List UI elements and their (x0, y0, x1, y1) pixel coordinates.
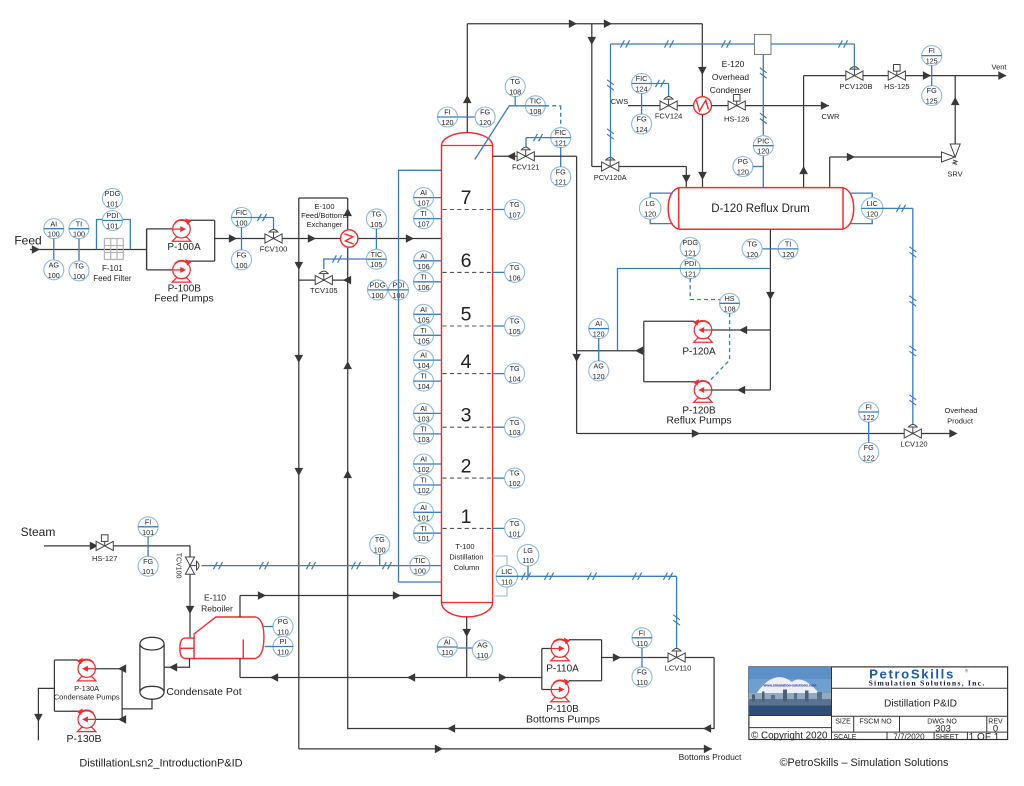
wire TG-100 stub (379, 554, 381, 565)
svg-text:F-101: F-101 (102, 264, 123, 273)
drum vapor riser (803, 76, 805, 188)
svg-text:E-110: E-110 (204, 593, 226, 603)
svg-text:FG: FG (637, 115, 647, 124)
instrument LIC-110 (496, 566, 518, 588)
svg-text:AI: AI (420, 188, 427, 197)
svg-text:SIZE: SIZE (835, 719, 851, 726)
svg-text:TIC: TIC (371, 250, 383, 259)
wire TIC-105 to TCV105 (324, 259, 367, 269)
signal LIC-120 to LCV120 (883, 207, 913, 209)
svg-text:AG: AG (49, 260, 60, 269)
instrument PDI-101 (102, 211, 122, 231)
svg-text:110: 110 (477, 651, 488, 660)
instrument FG-101 (138, 556, 158, 576)
svg-text:PDG: PDG (370, 281, 386, 290)
pump P-100A (172, 218, 191, 241)
P-130 suction manifold (121, 669, 123, 720)
svg-text:CWR: CWR (822, 112, 840, 121)
wire FIC-100 tap (241, 227, 243, 250)
svg-text:Bottoms Pumps: Bottoms Pumps (526, 714, 600, 726)
svg-text:110: 110 (501, 577, 512, 586)
signal PIC-120 drop (762, 55, 764, 188)
instrument FI-101 (138, 517, 158, 537)
vapor line column top (466, 24, 468, 133)
svg-text:DistillationLsn2_IntroductionP: DistillationLsn2_IntroductionP&ID (79, 758, 242, 770)
valve LCV120 (904, 425, 921, 439)
svg-text:TIC: TIC (530, 96, 542, 105)
svg-text:120: 120 (593, 330, 605, 339)
instrument PG-110 (273, 617, 293, 637)
svg-text:124: 124 (636, 125, 648, 134)
svg-text:TCV105: TCV105 (310, 286, 338, 295)
wire to PCV120A (591, 24, 593, 167)
valve FCV124 (660, 97, 677, 111)
svg-text:106: 106 (509, 273, 521, 282)
svg-text:PCV120B: PCV120B (840, 82, 873, 91)
instrument HS-108 (720, 293, 740, 313)
svg-text:120: 120 (593, 372, 605, 381)
steam line (44, 545, 190, 547)
svg-text:TI: TI (420, 209, 426, 218)
svg-text:Column: Column (454, 563, 480, 572)
instruments AI/TI 101-107 (414, 197, 442, 199)
svg-text:Feed/Bottoms: Feed/Bottoms (301, 211, 348, 220)
svg-text:100: 100 (48, 230, 60, 239)
svg-text:120: 120 (442, 118, 454, 127)
instrument LIC-120 (861, 198, 883, 220)
svg-text:TI: TI (76, 219, 82, 228)
svg-text:TG: TG (510, 364, 520, 373)
svg-text:105: 105 (370, 220, 382, 229)
valve TCV100 (185, 557, 199, 574)
svg-text:LCV110: LCV110 (665, 664, 692, 673)
reflux pump discharge (577, 350, 644, 352)
instrument FI-122 (859, 402, 879, 422)
svg-text:105: 105 (509, 327, 521, 336)
svg-text:FI: FI (145, 517, 151, 526)
instrument FI-125 (922, 46, 942, 66)
svg-text:TG: TG (510, 469, 520, 478)
signal top blue (611, 43, 855, 45)
svg-text:101: 101 (509, 529, 521, 538)
reboiler E-110 (180, 617, 264, 659)
wire FI-125 tap (931, 65, 933, 85)
svg-text:100: 100 (374, 546, 386, 555)
controller box (755, 35, 772, 55)
valve PCV120A (602, 158, 619, 172)
svg-text:110: 110 (442, 648, 453, 657)
condensate pot (140, 637, 164, 699)
pump discharge manifold P-120 (644, 320, 695, 322)
svg-text:AI: AI (420, 305, 427, 314)
svg-text:FSCM NO: FSCM NO (859, 719, 892, 726)
instrument PDG-100 (368, 280, 388, 300)
svg-text:100: 100 (48, 271, 60, 280)
svg-text:TG: TG (510, 418, 520, 427)
instrument TIC-100 (410, 556, 430, 576)
instrument AG-100 (44, 260, 64, 280)
svg-text:SRV: SRV (947, 170, 962, 179)
wire FIC-121 tap (560, 147, 562, 167)
vent line (863, 75, 1006, 77)
svg-text:101: 101 (142, 528, 154, 537)
svg-text:Bottoms Product: Bottoms Product (679, 752, 742, 762)
wire TIC-108 to FIC-121 dashed (545, 105, 561, 107)
wire AI/AG-110 (438, 647, 493, 649)
svg-text:102: 102 (418, 486, 430, 495)
instrument AG-110 (473, 640, 493, 660)
instrument AI-100 (44, 219, 64, 239)
reboiler vapor line (239, 596, 241, 618)
svg-text:104: 104 (509, 375, 521, 384)
instrument LG-110 (517, 544, 539, 566)
svg-text:FCV100: FCV100 (260, 245, 288, 254)
svg-text:100: 100 (372, 291, 384, 300)
svg-text:TI: TI (785, 240, 791, 249)
svg-text:102: 102 (509, 479, 521, 488)
relief valve SRV (942, 144, 961, 165)
drum outlet (769, 229, 771, 390)
svg-text:www.simulation-solutions.com: www.simulation-solutions.com (763, 684, 817, 688)
svg-text:LG: LG (523, 546, 533, 555)
svg-text:120: 120 (782, 250, 794, 259)
svg-text:120: 120 (746, 250, 758, 259)
svg-text:103: 103 (418, 435, 430, 444)
svg-text:2: 2 (461, 456, 472, 478)
svg-text:303: 303 (935, 724, 951, 735)
wire pump discharge manifold (187, 219, 214, 221)
instrument TG-108 (505, 77, 525, 97)
instrument TI-100 (69, 219, 89, 239)
svg-text:TG: TG (510, 200, 520, 209)
svg-text:CWS: CWS (611, 97, 629, 106)
svg-text:FI: FI (444, 108, 450, 117)
valve HS-125 (888, 65, 905, 81)
pump P-110B (551, 679, 570, 702)
svg-text:120: 120 (737, 168, 749, 177)
instrument FG-124 (632, 114, 652, 134)
P-110 suction manifold (541, 649, 543, 690)
svg-text:Feed Pumps: Feed Pumps (154, 293, 214, 305)
wire AI-120 tap (598, 338, 600, 361)
svg-text:TG: TG (510, 263, 520, 272)
instrument TG-100 feed (69, 261, 89, 281)
svg-text:HS-126: HS-126 (724, 115, 749, 124)
svg-text:FIC: FIC (236, 208, 248, 217)
instrument TI-120 (778, 239, 798, 259)
svg-text:4: 4 (461, 351, 472, 373)
svg-text:AG: AG (477, 641, 488, 650)
wire FIC-124 to FCV124 (651, 83, 668, 85)
instrument TG-120 (742, 239, 762, 259)
svg-text:TG: TG (510, 317, 520, 326)
svg-text:HS-125: HS-125 (884, 82, 909, 91)
svg-text:Simulation Solutions, Inc.: Simulation Solutions, Inc. (869, 679, 986, 688)
wire LG-110 stub (527, 566, 529, 577)
instrument FIC-121 (551, 128, 571, 148)
svg-text:5: 5 (461, 304, 472, 326)
svg-text:PCV120A: PCV120A (594, 173, 627, 182)
svg-text:©PetroSkills – Simulation Solu: ©PetroSkills – Simulation Solutions (780, 757, 949, 769)
svg-text:FCV124: FCV124 (655, 112, 683, 121)
steam drop (189, 546, 191, 638)
heat-exchanger E-120 (694, 97, 712, 115)
wire PG-110 stub (264, 626, 274, 628)
wire TG-105 tap (375, 229, 377, 250)
instrument PDI-121 (680, 259, 700, 279)
svg-text:101: 101 (418, 513, 430, 522)
instrument FG-121 (551, 167, 571, 187)
svg-text:3: 3 (461, 405, 472, 427)
valve LCV110 (668, 649, 685, 663)
svg-text:1: 1 (461, 506, 472, 528)
svg-text:PG: PG (278, 617, 289, 626)
signal HS-108 to P-120B dashed (709, 313, 730, 382)
condensate discharge (38, 688, 54, 740)
pump P-100B (172, 259, 191, 282)
svg-text:FI: FI (929, 46, 935, 55)
svg-text:100: 100 (236, 219, 248, 228)
svg-text:FG: FG (556, 167, 566, 176)
svg-text:110: 110 (277, 648, 288, 657)
svg-text:TG: TG (371, 210, 381, 219)
svg-text:PIC: PIC (757, 136, 769, 145)
svg-text:FIC: FIC (555, 128, 567, 137)
pump P-130A (77, 658, 96, 681)
svg-text:Reboiler: Reboiler (201, 604, 233, 614)
svg-text:121: 121 (684, 270, 696, 279)
valve PCV120B (846, 67, 863, 81)
svg-text:122: 122 (863, 454, 875, 463)
svg-text:125: 125 (926, 97, 938, 106)
valve FCV121 (517, 147, 534, 161)
wire PCV120A to drum (619, 166, 687, 168)
svg-text:FG: FG (864, 443, 874, 452)
svg-text:PDG: PDG (105, 189, 121, 198)
svg-text:© Copyright 2020: © Copyright 2020 (751, 731, 828, 742)
svg-text:TI: TI (420, 372, 426, 381)
wire TI-100 tap (78, 239, 80, 262)
svg-text:103: 103 (509, 428, 521, 437)
P-120B suction (712, 389, 771, 391)
svg-text:TIC: TIC (414, 556, 426, 565)
svg-text:LIC: LIC (501, 567, 512, 576)
svg-text:6: 6 (461, 250, 472, 272)
svg-text:AI: AI (420, 503, 427, 512)
svg-text:110: 110 (636, 639, 647, 648)
svg-text:TI: TI (420, 476, 426, 485)
svg-text:Condensate Pot: Condensate Pot (166, 686, 241, 698)
svg-text:TG: TG (510, 519, 520, 528)
svg-text:105: 105 (418, 315, 430, 324)
instrument LIC-120 bracket (850, 193, 873, 198)
wire FI-FG-120 (438, 116, 495, 118)
svg-text:T-100: T-100 (455, 542, 474, 551)
svg-text:120: 120 (757, 147, 769, 156)
instrument PDI-100 (389, 280, 409, 300)
svg-text:TI: TI (420, 425, 426, 434)
instrument TG-100 col (370, 535, 390, 555)
svg-text:108: 108 (724, 304, 736, 313)
svg-text:121: 121 (555, 139, 567, 148)
wire FIC-124 tap (641, 93, 643, 114)
svg-text:FG: FG (480, 108, 490, 117)
svg-text:120: 120 (479, 118, 491, 127)
valve TCV105 (315, 271, 332, 285)
heat-exchanger E-100 circle (341, 230, 358, 247)
svg-text:Distillation: Distillation (449, 553, 483, 562)
svg-text:103: 103 (418, 414, 430, 423)
svg-text:124: 124 (636, 85, 648, 94)
instrument PIC-120 (753, 136, 773, 156)
instrument PG-120 (733, 157, 753, 177)
svg-text:Overhead: Overhead (945, 406, 978, 415)
gauge bracket LIC-110 (493, 556, 507, 566)
svg-text:LIC: LIC (867, 199, 878, 208)
P-120A suction (712, 329, 771, 331)
instrument FG-120 (475, 107, 495, 127)
feed line (30, 249, 147, 251)
svg-text:Feed: Feed (14, 234, 41, 248)
svg-text:100: 100 (236, 261, 248, 270)
svg-text:100: 100 (73, 230, 85, 239)
svg-text:FI: FI (639, 628, 645, 637)
svg-text:FG: FG (143, 557, 153, 566)
svg-text:AI: AI (420, 351, 427, 360)
svg-text:125: 125 (926, 57, 938, 66)
svg-text:107: 107 (418, 199, 430, 208)
svg-text:PG: PG (738, 157, 749, 166)
instrument TIC-108 (525, 96, 545, 116)
instrument TG-105 feed (366, 209, 386, 229)
E-100 right vertical (347, 198, 349, 729)
E-100 box top (299, 197, 348, 199)
bottoms header (240, 677, 542, 679)
svg-text:SHEET: SHEET (935, 734, 959, 741)
P-130 discharge manifold (54, 659, 78, 661)
svg-text:110: 110 (636, 678, 647, 687)
svg-text:Vent: Vent (991, 63, 1007, 72)
instrument FI-110 (632, 628, 652, 648)
wire PDI-121 taps (618, 269, 681, 351)
wire PG-120 stub (753, 166, 764, 168)
svg-text:7: 7 (461, 187, 472, 209)
svg-text:PDI: PDI (106, 211, 118, 220)
signal TCV100 line (202, 565, 420, 567)
filter dp box (97, 220, 131, 250)
svg-text:TG: TG (74, 261, 84, 270)
bottoms discharge (602, 657, 715, 659)
svg-text:TG: TG (510, 77, 520, 86)
signal LIC-110 to LCV110 (517, 575, 676, 577)
svg-text:Condenser: Condenser (710, 85, 752, 95)
CWR line (711, 105, 829, 107)
signal PCV120B (853, 44, 855, 69)
svg-text:108: 108 (529, 107, 541, 116)
svg-text:Exchanger: Exchanger (307, 220, 343, 229)
signal PDI to HS-108 dashed (690, 278, 720, 299)
svg-text:P-120A: P-120A (682, 347, 716, 358)
instrument AG-120 (589, 361, 609, 381)
svg-text:AI: AI (444, 638, 451, 647)
svg-text:Reflux Pumps: Reflux Pumps (666, 415, 731, 427)
svg-text:Feed Filter: Feed Filter (93, 274, 132, 283)
svg-text:108: 108 (509, 88, 521, 97)
svg-text:HS-127: HS-127 (92, 554, 117, 563)
E-100 left vertical (298, 198, 300, 749)
svg-text:TG: TG (375, 535, 385, 544)
condenser inlet (701, 97, 703, 115)
svg-text:E-100: E-100 (314, 202, 334, 211)
svg-text:AI: AI (420, 251, 427, 260)
column trays dashed (443, 209, 492, 211)
bottoms to E-100 (348, 658, 714, 729)
svg-text:FG: FG (927, 86, 937, 95)
pump P-120A (693, 319, 712, 342)
svg-text:FI: FI (866, 403, 872, 412)
instrument LG-120 (639, 198, 661, 220)
svg-text:P-110A: P-110A (546, 664, 579, 675)
svg-text:PI: PI (280, 637, 287, 646)
svg-text:P-100A: P-100A (167, 242, 201, 253)
signal PCV120A drop (610, 44, 612, 160)
condensate line (164, 659, 189, 668)
instrument FG-100 (232, 250, 252, 270)
svg-text:106: 106 (418, 283, 430, 292)
svg-text:101: 101 (106, 199, 118, 208)
svg-text:101: 101 (418, 534, 430, 543)
svg-text:110: 110 (522, 556, 533, 565)
pump P-120B (693, 379, 712, 402)
wire FIC-121 to FCV121 (526, 137, 551, 139)
svg-text:107: 107 (509, 211, 521, 220)
svg-text:TI: TI (420, 272, 426, 281)
pump P-110A (551, 638, 570, 661)
svg-text:TG: TG (747, 240, 757, 249)
svg-text:121: 121 (555, 178, 567, 187)
pot outlet (122, 699, 152, 709)
SRV riser (954, 76, 956, 146)
svg-text:FIC: FIC (636, 74, 648, 83)
instruments TG 101-107 (493, 209, 505, 211)
svg-text:TCV100: TCV100 (175, 553, 182, 579)
wire FI-122 tap (868, 422, 870, 443)
svg-text:122: 122 (863, 413, 875, 422)
svg-text:Product: Product (947, 417, 974, 426)
wire FIC-100 to FCV100 (251, 217, 273, 219)
instrument AI-110 (437, 637, 457, 657)
svg-text:AI: AI (420, 404, 427, 413)
svg-text:1 OF 1: 1 OF 1 (969, 732, 1000, 743)
feed discharge line (215, 238, 442, 240)
instrument AI-120 (589, 319, 609, 339)
wire PDI-100 column taps (399, 170, 442, 582)
svg-text:Steam: Steam (21, 525, 56, 539)
svg-text:105: 105 (370, 260, 382, 269)
valve HS-126 (728, 95, 745, 111)
svg-text:105: 105 (418, 336, 430, 345)
filter F-101 (103, 239, 105, 260)
svg-text:P-130B: P-130B (66, 733, 101, 745)
wire AI-100 tap (53, 239, 55, 261)
svg-text:TI: TI (420, 524, 426, 533)
svg-text:FG: FG (237, 250, 247, 259)
svg-text:104: 104 (418, 361, 430, 370)
instrument FIC-124 (632, 74, 652, 94)
svg-text:SCALE: SCALE (834, 734, 857, 741)
svg-text:120: 120 (866, 209, 878, 218)
svg-text:120: 120 (644, 209, 656, 218)
